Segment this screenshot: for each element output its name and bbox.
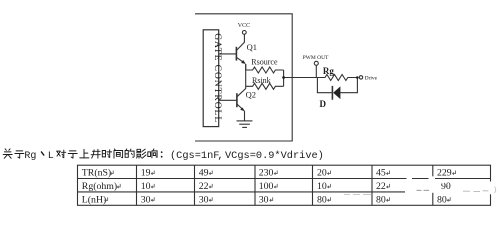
svg-text:Rg(ohm): Rg(ohm)	[82, 181, 117, 192]
svg-text:230: 230	[259, 168, 274, 179]
svg-text:GATE CONTROLL: GATE CONTROLL	[212, 33, 223, 122]
svg-text:L(nH): L(nH)	[82, 194, 106, 205]
svg-text:22: 22	[376, 181, 386, 192]
svg-text:22: 22	[199, 181, 209, 192]
svg-text:Rsink: Rsink	[252, 76, 271, 85]
svg-text:80: 80	[437, 194, 447, 205]
svg-text:Rsource: Rsource	[251, 58, 278, 67]
svg-text:D: D	[320, 99, 327, 109]
svg-text:45: 45	[376, 168, 386, 179]
svg-text:49: 49	[199, 168, 209, 179]
svg-text:TR(nS): TR(nS)	[82, 168, 111, 179]
svg-text:10: 10	[141, 181, 151, 192]
svg-text:30: 30	[259, 194, 269, 205]
svg-text:30: 30	[141, 194, 151, 205]
svg-text:229: 229	[437, 168, 452, 179]
svg-text:80: 80	[376, 194, 386, 205]
svg-text:100: 100	[259, 181, 274, 192]
svg-text:Rg: Rg	[24, 151, 36, 162]
svg-text:,: ,	[218, 151, 224, 162]
svg-text:30: 30	[199, 194, 209, 205]
svg-text:Rg: Rg	[323, 66, 334, 76]
svg-text:L: L	[48, 151, 54, 162]
svg-text:VCC: VCC	[238, 23, 250, 29]
svg-text:Q1: Q1	[247, 42, 257, 52]
svg-text:10: 10	[317, 181, 327, 192]
svg-text:80: 80	[317, 194, 327, 205]
svg-text:Drive: Drive	[365, 76, 378, 82]
svg-text:19: 19	[141, 168, 151, 179]
svg-text:PWM OUT: PWM OUT	[303, 55, 329, 61]
svg-text:Q2: Q2	[246, 90, 256, 100]
svg-text:(Cgs=1nF: (Cgs=1nF	[170, 150, 219, 162]
svg-text:VCgs=0.9*Vdrive): VCgs=0.9*Vdrive)	[225, 150, 324, 162]
svg-text:20: 20	[317, 168, 327, 179]
